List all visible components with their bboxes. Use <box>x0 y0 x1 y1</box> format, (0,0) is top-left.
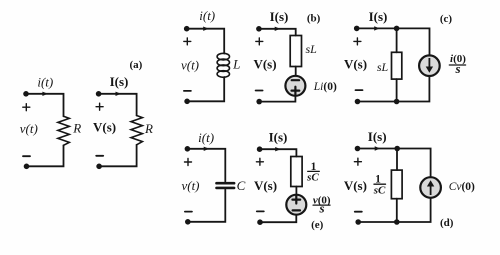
junction dot bottom (c) <box>394 99 400 105</box>
svg-text:v(t): v(t) <box>181 178 199 193</box>
node dot bottom-left (c) <box>355 99 361 105</box>
svg-text:V(s): V(s) <box>344 56 367 71</box>
svg-text:I(s): I(s) <box>368 129 387 144</box>
current arrow I(s) (b) <box>275 27 281 31</box>
voltage source v(0)/s <box>286 195 306 215</box>
svg-text:L: L <box>232 56 240 71</box>
plus sign V(s) (b) <box>256 38 263 45</box>
polarity plus inside source (e) <box>292 196 300 204</box>
minus sign v(t) C circuit <box>185 211 192 213</box>
svg-text:(a): (a) <box>129 59 142 71</box>
current arrow i(t) C circuit <box>204 147 210 151</box>
svg-text:v(t): v(t) <box>181 58 199 73</box>
minus sign V(s) (c) <box>356 89 363 91</box>
current arrow i(t) L circuit <box>203 27 209 31</box>
node dot top-left L circuit <box>184 26 190 32</box>
voltage source Li(0) <box>285 76 305 96</box>
current arrow i(t) <box>42 92 48 96</box>
wire loop circuit (c) parallel sL, i(0)/s <box>357 28 430 101</box>
impedance box 1/sC (e) <box>291 157 302 187</box>
svg-text:I(s): I(s) <box>369 9 388 24</box>
wire loop resistor circuit (time domain) <box>26 94 64 167</box>
resistor R (s domain) <box>131 116 142 145</box>
svg-text:(d): (d) <box>440 217 454 229</box>
svg-text:sC: sC <box>306 171 319 183</box>
wire loop circuit (b) series sL + Li(0) <box>259 29 296 102</box>
inductor L coil <box>217 53 229 77</box>
svg-text:i(t): i(t) <box>198 130 214 145</box>
impedance box sL (c) <box>392 52 402 79</box>
wire loop resistor circuit (s domain) <box>99 94 137 167</box>
plus sign v(t) C circuit <box>185 159 192 166</box>
junction dot top (c) <box>394 26 400 32</box>
source arrow down (c) <box>426 58 433 73</box>
junction dot bottom (d) <box>394 219 400 225</box>
resistor R (time domain) <box>58 116 69 145</box>
svg-text:C: C <box>237 178 246 193</box>
svg-text:I(s): I(s) <box>270 9 289 24</box>
fraction bar i(0)/s <box>449 64 465 66</box>
svg-text:v(t): v(t) <box>20 121 38 136</box>
node dot bottom-left (e) <box>257 219 263 225</box>
node dot top-left V(s) <box>96 91 102 97</box>
svg-text:R: R <box>144 121 153 136</box>
node dot bottom-left v(t) <box>24 164 30 170</box>
minus sign v(t) circuit a <box>23 155 30 157</box>
plus sign V(s) circuit a <box>96 103 103 110</box>
plus sign V(s) (d) <box>354 158 361 165</box>
source arrow up (d) <box>427 180 434 195</box>
svg-text:(c): (c) <box>440 13 453 25</box>
svg-text:V(s): V(s) <box>254 178 277 193</box>
minus sign v(t) L circuit <box>184 90 191 92</box>
node dot top-left C circuit <box>185 146 191 152</box>
node dot top-left (c) <box>354 26 360 32</box>
polarity plus inside source (b) <box>292 87 300 95</box>
node dot top-left (d) <box>355 146 361 152</box>
fraction bar 1/sC (e) <box>308 170 320 172</box>
current source i(0)/s <box>419 55 440 76</box>
node dot bottom-left C circuit <box>185 219 191 225</box>
fraction bar 1/sC (d) <box>374 183 386 185</box>
svg-text:R: R <box>72 121 81 136</box>
polarity minus inside source (b) <box>292 79 299 81</box>
svg-text:I(s): I(s) <box>269 129 288 144</box>
node dot top-left (e) <box>257 146 263 152</box>
impedance box 1/sC (d) <box>391 170 402 199</box>
svg-text:sL: sL <box>306 42 318 56</box>
current arrow I(s) <box>116 92 122 96</box>
impedance box sL (b) <box>290 36 301 67</box>
wire loop circuit (d) parallel 1/sC, Cv(0) <box>358 149 431 223</box>
fraction bar v(0)/s <box>313 204 330 206</box>
svg-text:s: s <box>454 61 460 76</box>
svg-text:s: s <box>318 200 324 215</box>
svg-text:V(s): V(s) <box>253 56 276 71</box>
svg-text:(e): (e) <box>311 219 324 231</box>
current arrow I(s) (e) <box>275 147 281 151</box>
node dot bottom-left V(s) <box>96 164 102 170</box>
svg-text:(b): (b) <box>307 12 321 24</box>
svg-text:V(s): V(s) <box>93 119 116 134</box>
svg-text:V(s): V(s) <box>344 178 367 193</box>
plus sign v(t) L circuit <box>184 38 191 45</box>
minus sign V(s) (b) <box>256 90 263 92</box>
minus sign V(s) (e) <box>257 210 264 212</box>
minus sign V(s) circuit a <box>96 155 103 157</box>
svg-text:Li(0): Li(0) <box>313 81 337 93</box>
svg-text:I(s): I(s) <box>110 74 129 89</box>
svg-text:Cv(0): Cv(0) <box>449 181 475 193</box>
current arrow I(s) (c) <box>374 26 380 30</box>
node dot bottom-left L circuit <box>184 99 190 105</box>
svg-text:sC: sC <box>373 185 386 197</box>
plus sign V(s) (c) <box>354 38 361 45</box>
current arrow I(s) (d) <box>375 146 381 150</box>
svg-text:i(t): i(t) <box>37 74 53 89</box>
minus sign V(s) (d) <box>355 211 362 213</box>
node dot bottom-left (d) <box>355 219 361 225</box>
node dot top-left (b) <box>256 26 262 32</box>
capacitor C plates <box>217 183 235 188</box>
wire loop circuit (e) series 1/sC + v(0)/s <box>260 149 297 222</box>
junction dot top (d) <box>394 146 400 152</box>
polarity minus inside source (e) <box>293 209 300 211</box>
wire loop capacitor circuit (time domain) <box>187 149 225 222</box>
plus sign v(t) circuit a <box>23 104 30 111</box>
svg-text:sL: sL <box>377 60 389 74</box>
plus sign V(s) (e) <box>256 158 263 165</box>
current source Cv(0) <box>420 177 441 198</box>
svg-text:i(t): i(t) <box>199 8 215 23</box>
wire loop inductor circuit (time domain) <box>187 29 225 102</box>
node dot bottom-left (b) <box>256 99 262 105</box>
node dot top-left v(t) <box>23 91 29 97</box>
